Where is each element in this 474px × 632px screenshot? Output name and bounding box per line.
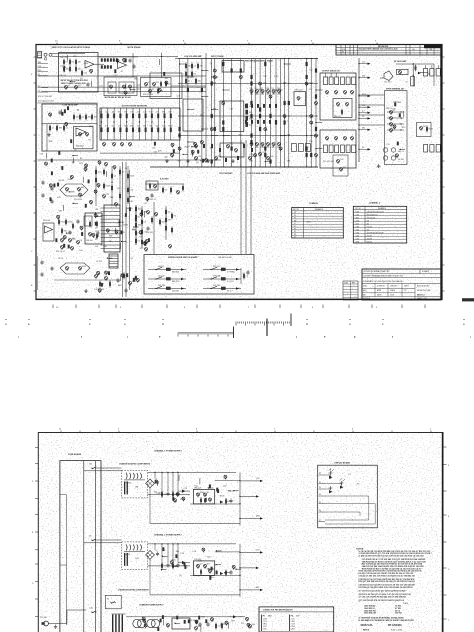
ch2 ic ladder B: [109, 254, 118, 268]
svg-text:9-8-81: 9-8-81: [390, 295, 395, 297]
op-amp U1: [85, 61, 94, 69]
headphone opamp U5: [384, 71, 393, 81]
ch2 driver patch: [195, 145, 198, 148]
svg-text:E2: E2: [294, 234, 296, 236]
svg-text:9-81 C 1981: 9-81 C 1981: [391, 630, 403, 632]
svg-text:Q2: Q2: [168, 212, 170, 214]
svg-text:C400 SER 2.2K: C400 SER 2.2K: [364, 612, 377, 615]
svg-text:R105: R105: [168, 125, 172, 127]
svg-text:C704: C704: [356, 238, 360, 240]
svg-text:CHECKED: CHECKED: [390, 286, 398, 288]
svg-text:D3: D3: [118, 112, 120, 114]
svg-text:260: 260: [367, 220, 370, 222]
svg-text:264: 264: [367, 223, 370, 225]
svg-text:HP JACK AMP: HP JACK AMP: [394, 60, 407, 63]
svg-text:R105: R105: [261, 147, 265, 149]
svg-text:C15 Q2 4.7 47K 10U 2.2K R105 C: C15 Q2 4.7 47K 10U 2.2K R105 C15 1N4 R1 …: [359, 574, 415, 577]
svg-text:296 298: 296 298: [367, 238, 373, 240]
svg-text:C52 R22: C52 R22: [395, 613, 402, 615]
ch2 component box B: [85, 213, 102, 244]
psu extra parts: [215, 564, 216, 565]
svg-text:10U R1: 10U R1: [124, 554, 130, 556]
svg-text:Q17: Q17: [207, 564, 210, 566]
pre drive transistor pair row: [250, 90, 253, 93]
svg-text:682: 682: [256, 587, 259, 589]
svg-text:SPKR TERMINAL BD: SPKR TERMINAL BD: [386, 88, 405, 91]
svg-text:P3: P3: [319, 487, 321, 489]
ch2 ic ladder A: [104, 205, 120, 252]
psu output rails: [215, 551, 240, 553]
svg-text:C15: C15: [198, 156, 201, 158]
fuse board box: [60, 461, 101, 632]
svg-text:1N4: 1N4: [143, 125, 146, 127]
svg-text:4.7: 4.7: [131, 112, 133, 114]
svg-text:D3: D3: [241, 623, 243, 625]
svg-text:D3 C4: D3 C4: [58, 258, 63, 260]
svg-text:1N4 2.2K: 1N4 2.2K: [194, 487, 202, 489]
svg-text:Q2: Q2: [249, 125, 252, 127]
svg-text:CKT NO: CKT NO: [355, 208, 362, 210]
svg-text:R22: R22: [402, 127, 405, 129]
ch2 vertical rails: [122, 162, 124, 297]
bridge rectifier: [146, 479, 155, 488]
svg-text:330 C4: 330 C4: [386, 108, 392, 110]
output transistors lower: [326, 137, 329, 140]
svg-text:250 252 258: 250 252 258: [367, 217, 376, 219]
ch2 transistor row: [61, 239, 64, 242]
svg-text:4.7 C52 2.2K 1N4 R1 R1 R22 682: 4.7 C52 2.2K 1N4 R1 R1 R22 682 330 4.7 1…: [359, 596, 406, 599]
svg-text:ECN 4217 REV CHANGE C15 C16 R: ECN 4217 REV CHANGE C15 C16 R101 2-4-81: [359, 48, 398, 51]
svg-text:330: 330: [188, 66, 191, 68]
svg-text:270,272: 270,272: [367, 226, 373, 228]
psu output rails: [215, 479, 240, 481]
svg-text:5: 5: [430, 429, 431, 431]
svg-text:R105: R105: [68, 222, 72, 224]
svg-text:4. 1N4 C4 47K D3 R1 682 C15 33: 4. 1N4 C4 47K D3 R1 682 C15 330 2.2K 330…: [359, 555, 424, 558]
svg-text:682 R22: 682 R22: [172, 272, 179, 274]
svg-text:4.7 R105: 4.7 R105: [227, 272, 235, 274]
svg-text:5 330: 5 330: [263, 628, 267, 630]
svg-text:R22: R22: [201, 616, 204, 618]
common bridge circles: [133, 619, 141, 627]
svg-text:P2: P2: [357, 483, 359, 485]
svg-text:CHANNEL 2 POWER SUPPLY: CHANNEL 2 POWER SUPPLY: [154, 533, 183, 536]
svg-text:P1: P1: [349, 474, 351, 476]
speaker board inner parts: [395, 154, 398, 157]
svg-text:9: 9: [118, 429, 119, 431]
psu extra parts: [199, 478, 201, 484]
top network cluster: [101, 58, 103, 61]
svg-text:4.7: 4.7: [156, 112, 158, 114]
svg-text:Q17: Q17: [256, 478, 260, 480]
svg-text:R22: R22: [140, 237, 143, 239]
ch2 input coupling caps: [41, 181, 44, 183]
svg-text:R1: R1: [342, 52, 344, 54]
svg-text:C4: C4: [80, 78, 82, 80]
svg-text:F7: F7: [294, 218, 296, 220]
input area extra parts: [116, 59, 119, 62]
strip top right blob: [462, 298, 474, 301]
svg-text:47K 1N4: 47K 1N4: [213, 275, 220, 277]
svg-text:COMMON POWER SUPPLY: COMMON POWER SUPPLY: [139, 605, 164, 607]
svg-text:R105: R105: [89, 126, 94, 128]
svg-text:MT-1200/600: MT-1200/600: [388, 625, 402, 627]
svg-text:U5: U5: [406, 82, 408, 84]
svg-text:C101: C101: [356, 214, 360, 216]
svg-text:C15: C15: [184, 488, 187, 490]
svg-text:330: 330: [149, 125, 152, 127]
svg-text:D3: D3: [178, 96, 180, 98]
svg-text:100: 100: [112, 112, 115, 114]
svg-text:A. THIS PAGE SCALED AT INTERNA: A. THIS PAGE SCALED AT INTERNAL SIGNAL R…: [359, 616, 405, 619]
left column parts: [185, 64, 187, 68]
svg-text:Q17: Q17: [156, 125, 159, 127]
svg-text:D3: D3: [196, 162, 198, 164]
fuse F3: [91, 611, 93, 613]
svg-text:Q17: Q17: [118, 226, 122, 228]
svg-text:3 2.2K: 3 2.2K: [291, 623, 295, 625]
svg-text:PRE DRIVE AND DRIVE STAGE: PRE DRIVE AND DRIVE STAGE: [245, 60, 274, 63]
svg-text:W8: W8: [294, 220, 296, 222]
svg-text:MUTE STAGE: MUTE STAGE: [128, 46, 142, 49]
field generic parts: [179, 63, 180, 64]
svg-text:D3 330: D3 330: [190, 620, 196, 622]
svg-text:7: 7: [274, 429, 275, 431]
svg-text:C52 330: C52 330: [40, 617, 47, 619]
svg-text:1 1N4: 1 1N4: [263, 618, 267, 620]
svg-text:1 C15: 1 C15: [291, 618, 295, 620]
svg-text:DISPLAY BOARD: DISPLAY BOARD: [335, 461, 351, 464]
upper emitter resistor trios: [324, 77, 328, 85]
filter parts row: [161, 564, 163, 568]
page 1 margin zone ticks top: [56, 43, 58, 45]
table common: [292, 208, 344, 239]
svg-text:t: t: [296, 335, 297, 339]
svg-text:A: A: [306, 322, 308, 326]
svg-text:682: 682: [272, 147, 275, 149]
svg-text:682: 682: [162, 222, 165, 224]
svg-text:10U Q2: 10U Q2: [158, 275, 165, 277]
input stage lower parts: [65, 86, 68, 89]
active filter box: [100, 108, 180, 140]
svg-text:682: 682: [120, 274, 123, 276]
ch2 left opamp: [43, 223, 54, 241]
svg-text:C4: C4: [246, 276, 248, 278]
led P3: [329, 486, 333, 490]
svg-text:C4: C4: [114, 176, 116, 178]
title block grid: [362, 287, 415, 289]
wire to right rail: [171, 85, 206, 87]
ch1 field horizontal ties: [178, 58, 318, 60]
svg-text:Q17 10U Q17 Q17: Q17 10U Q17 Q17: [38, 100, 54, 102]
output stage box lower: [320, 130, 356, 168]
svg-text:Q2: Q2: [188, 81, 190, 83]
input stage box: [59, 53, 99, 93]
svg-text:100: 100: [412, 49, 415, 51]
svg-text:REV B: REV B: [363, 630, 370, 632]
svg-text:R105: R105: [130, 176, 134, 178]
output transistors upper: [326, 91, 329, 94]
headphone feedback box: [397, 69, 408, 74]
svg-text:CHANNEL 1 POWER SUPPLY: CHANNEL 1 POWER SUPPLY: [154, 449, 183, 452]
table channel 2: [353, 206, 406, 243]
display routing rectangles: [325, 475, 375, 524]
svg-text:CKT NO: CKT NO: [293, 209, 300, 211]
svg-text:F4: F4: [107, 599, 109, 601]
svg-text:CROWN INTERNATIONAL INC: CROWN INTERNATIONAL INC: [363, 270, 390, 273]
svg-text:D3 R105 Q2 C52 682 C4 682 2.2K: D3 R105 Q2 C52 682 C4 682 2.2K C52 330 6…: [359, 586, 413, 589]
zener cluster right of filter: [154, 142, 156, 146]
page 1 sheet border: [36, 45, 442, 300]
svg-text:4.7: 4.7: [145, 203, 148, 205]
svg-text:330 C15: 330 C15: [334, 116, 341, 118]
rectifier diode D: [182, 561, 185, 564]
svg-text:1N4: 1N4: [99, 112, 102, 114]
filter capacitor C1: [156, 481, 159, 483]
output stage box upper: [320, 73, 356, 120]
svg-text:C15 R105: C15 R105: [74, 199, 82, 201]
channel 1 amplifier field rails: [179, 59, 181, 168]
ch2 resistor column right: [135, 207, 137, 211]
svg-text:8.2V REG: 8.2V REG: [160, 179, 169, 181]
svg-text:C305: C305: [356, 211, 360, 213]
svg-text:1/1: 1/1: [404, 290, 406, 292]
svg-text:C12 C13: C12 C13: [76, 146, 83, 148]
svg-text:Q2: Q2: [210, 63, 213, 65]
svg-text:47K 4.7 100 682: 47K 4.7 100 682: [38, 96, 52, 98]
svg-text:330: 330: [96, 233, 99, 235]
svg-text:C52: C52: [168, 112, 171, 114]
low pass ground: [48, 133, 50, 135]
headphone series box: [411, 77, 415, 86]
svg-text:C15: C15: [218, 626, 221, 628]
svg-text:LOW VOLUME AMP AND DRIVE AMP: LOW VOLUME AMP AND DRIVE AMP: [247, 172, 281, 175]
svg-text:REL: REL: [363, 295, 366, 297]
svg-text:Q17: Q17: [117, 188, 121, 190]
svg-text:100: 100: [66, 69, 69, 71]
psu output arrows: [239, 480, 240, 481]
svg-text:100: 100: [277, 147, 280, 149]
svg-text:C15 100: C15 100: [384, 82, 391, 84]
svg-text:C52 R1: C52 R1: [58, 180, 64, 182]
svg-text:100: 100: [277, 88, 280, 90]
svg-text:R105: R105: [61, 222, 65, 224]
svg-text:R105: R105: [249, 118, 254, 120]
svg-text:330: 330: [228, 491, 231, 493]
display board wiring: [319, 474, 326, 476]
svg-text:1N4: 1N4: [429, 49, 432, 51]
svg-text:C15: C15: [118, 125, 121, 127]
ch2 input column parts: [95, 170, 97, 174]
svg-text:R22 Q17 1N4 1N4 2.2K R105 2.2K: R22 Q17 1N4 1N4 2.2K R105 2.2K 682 Q17 3…: [359, 580, 415, 583]
coupling caps: [128, 59, 131, 61]
svg-text:D3: D3: [124, 112, 126, 114]
svg-text:CH1 PWR AMP: CH1 PWR AMP: [219, 172, 233, 175]
svg-text:C52: C52: [114, 75, 117, 77]
driver bias box: [294, 92, 306, 106]
svg-text:C4 C15: C4 C15: [96, 261, 102, 263]
regulator out parts: [220, 500, 223, 503]
svg-text:276 280 282 284 286 290: 276 280 282 284 286 290: [367, 232, 384, 234]
svg-text:R105 Q17: R105 Q17: [295, 90, 303, 92]
headphone rail: [412, 63, 414, 86]
svg-text:INPUT STAGE: INPUT STAGE: [211, 55, 224, 58]
headphone diode and jack: [418, 72, 421, 75]
svg-text:100: 100: [309, 141, 312, 143]
rectifier diode D: [182, 489, 185, 492]
ch2 ground: [85, 289, 87, 291]
emitter resistor trio far right top: [424, 69, 428, 77]
svg-text:M21571-8A: M21571-8A: [361, 624, 373, 627]
svg-text:CROWN 2002 LINE: CROWN 2002 LINE: [417, 290, 430, 292]
svg-text:100: 100: [137, 125, 140, 127]
ch2 amp extra parts mid left: [49, 184, 52, 187]
svg-text:Q2: Q2: [200, 564, 202, 566]
svg-text:C607: C607: [356, 223, 360, 225]
ground right section: [378, 164, 380, 166]
low pass divider: [42, 123, 97, 125]
svg-text:Q17: Q17: [72, 239, 76, 241]
svg-text:R22: R22: [362, 105, 365, 107]
regulator box with Q1 Q2: [193, 561, 214, 576]
svg-text:FUSE BOARD: FUSE BOARD: [68, 453, 82, 456]
svg-text:SWITCH TO OSCILLATOR INPUT STA: SWITCH TO OSCILLATOR INPUT STAGE: [52, 46, 91, 49]
svg-text:C4: C4: [80, 240, 82, 242]
svg-text:3 R22: 3 R22: [263, 623, 267, 625]
svg-text:1N4: 1N4: [110, 197, 113, 199]
svg-text:R22 330: R22 330: [158, 285, 165, 287]
ruler zero bar: [266, 319, 268, 337]
svg-text:REVISIONS: REVISIONS: [378, 46, 389, 48]
svg-text:C302: C302: [356, 235, 360, 237]
svg-text:OUTPUT STAGE CH1: OUTPUT STAGE CH1: [322, 70, 340, 73]
speaker terminal board box: [385, 91, 408, 165]
low pass inner box: [74, 127, 93, 149]
input stage resistors: [63, 60, 65, 64]
svg-text:274: 274: [367, 229, 370, 231]
stereo board extra right parts: [240, 268, 242, 284]
stereo mode switch board box: [144, 255, 254, 295]
page 1 margin zone ticks bottom: [52, 305, 54, 309]
svg-text:100: 100: [76, 117, 79, 119]
svg-text:R105: R105: [84, 63, 89, 65]
filter parts row: [161, 492, 163, 496]
regulator box with Q1 Q2: [193, 489, 214, 504]
svg-text:C52: C52: [95, 246, 98, 248]
svg-text:330: 330: [132, 229, 135, 231]
ch2 bias box: [333, 155, 348, 176]
svg-text:6: 6: [352, 429, 353, 431]
svg-text:1N4: 1N4: [94, 117, 97, 119]
svg-text:1N4: 1N4: [138, 209, 141, 211]
transformer windings: [126, 544, 127, 550]
svg-text:100: 100: [103, 246, 106, 248]
fuse board feed wires: [60, 494, 67, 496]
svg-text:682: 682: [118, 285, 121, 287]
input jacks: [44, 53, 47, 56]
svg-text:C15: C15: [40, 153, 43, 155]
svg-text:R22: R22: [157, 493, 160, 495]
svg-text:234 236,240 242: 234 236,240 242: [367, 214, 378, 216]
switch rows: [148, 269, 186, 271]
display board box: [318, 465, 378, 528]
svg-text:R22 R22: R22 R22: [213, 285, 220, 287]
svg-text:ZONE: ZONE: [344, 282, 348, 284]
svg-text:Q17: Q17: [168, 84, 171, 86]
svg-text:C15: C15: [180, 499, 183, 501]
svg-text:10,100: 10,100: [306, 222, 311, 224]
svg-text:5 R22: 5 R22: [291, 628, 295, 630]
led P1: [329, 471, 333, 475]
svg-text:C4: C4: [99, 125, 101, 127]
svg-text:R1: R1: [255, 88, 257, 90]
svg-text:r: r: [127, 335, 128, 339]
ch2 bottom caps: [40, 261, 43, 263]
svg-text:D3: D3: [194, 74, 196, 76]
svg-text:4.7 100 R1 D3 Q2 C4 330 Q17 Q2: 4.7 100 R1 D3 Q2 C4 330 Q17 Q2 C4 Q2 R10…: [359, 590, 406, 593]
svg-text:R22: R22: [185, 147, 188, 149]
svg-text:100 R1: 100 R1: [158, 266, 164, 268]
svg-text:100: 100: [165, 156, 168, 158]
svg-text:D3 100: D3 100: [398, 159, 404, 161]
svg-text:100 2.2K: 100 2.2K: [60, 57, 68, 59]
svg-text:330: 330: [249, 112, 252, 114]
svg-text:R105: R105: [220, 496, 225, 498]
svg-text:D3: D3: [309, 89, 311, 91]
svg-text:C15: C15: [105, 112, 108, 114]
speaker jacks: [383, 148, 387, 152]
revision table: [336, 45, 441, 56]
svg-text:SCHEMATIC MT-600/1200 WITH 2N: SCHEMATIC MT-600/1200 WITH 2ND GAUGE: [363, 280, 403, 283]
page 1 margin zone ticks left: [34, 56, 37, 58]
svg-text:SHEET 1 OF 2: SHEET 1 OF 2: [417, 298, 427, 300]
headphone top wire: [380, 77, 384, 79]
svg-text:1N4: 1N4: [95, 209, 98, 211]
wires bus to speaker board: [359, 94, 385, 96]
svg-text:LOW VOLUME AMP: LOW VOLUME AMP: [184, 55, 202, 58]
svg-text:C15: C15: [84, 73, 87, 75]
bus branch arrows: [359, 63, 370, 65]
svg-text:330: 330: [263, 76, 266, 78]
svg-text:330: 330: [362, 76, 365, 78]
svg-text:F2: F2: [294, 226, 296, 228]
svg-text:Q2: Q2: [179, 575, 182, 577]
svg-text:Q2: Q2: [130, 258, 133, 260]
svg-text:MUTE DELAY RELAY K1 K2: MUTE DELAY RELAY K1 K2: [105, 96, 132, 99]
svg-text:P5: P5: [319, 502, 321, 504]
op-amp U2: [118, 62, 127, 69]
svg-text:4 C52: 4 C52: [263, 626, 267, 628]
svg-text:D3: D3: [66, 62, 68, 64]
svg-text:C601: C601: [356, 217, 360, 219]
mute relay box: [104, 77, 137, 96]
svg-text:1N4: 1N4: [176, 551, 179, 553]
svg-text:P5: P5: [294, 229, 296, 231]
svg-text:300 302: 300 302: [367, 241, 373, 243]
svg-text:C15: C15: [362, 62, 365, 64]
svg-text:R1: R1: [74, 150, 76, 152]
svg-text:100 682: 100 682: [172, 291, 179, 293]
svg-text:682 C4: 682 C4: [398, 151, 404, 153]
svg-text:D3: D3: [165, 190, 167, 192]
title block: [362, 269, 441, 300]
ch2 right columns: [141, 210, 143, 214]
svg-text:CHANNEL 2: CHANNEL 2: [369, 201, 380, 204]
svg-text:C52: C52: [230, 109, 233, 111]
ch2 amp extra parts bottom: [101, 283, 103, 287]
svg-text:C4: C4: [362, 116, 364, 118]
svg-text:R1 4.7: R1 4.7: [227, 291, 233, 293]
